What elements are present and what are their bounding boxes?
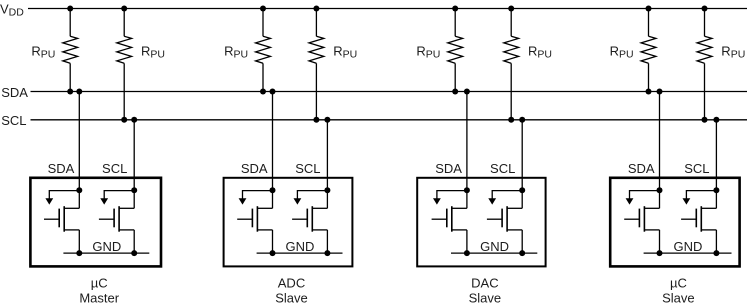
resistor RPU (group 3, VDD to SCL) <box>504 9 519 120</box>
node SCL/RPU junction (group 4) <box>702 117 708 123</box>
node SDA/RPU junction (group 4) <box>646 89 652 95</box>
svg-text:SDA: SDA <box>1 85 28 100</box>
wire SDA bus to device 1 SDA pin <box>78 92 80 209</box>
transistor Q (U4 SDA open-drain) <box>624 206 659 232</box>
node source/GND junction (U3 SDA) <box>464 250 470 256</box>
svg-text:SDA: SDA <box>241 161 268 176</box>
resistor RPU (group 4, VDD to SCL) <box>697 9 712 120</box>
node source/GND junction (U1 SDA) <box>76 250 82 256</box>
transistor Q (U4 SCL open-drain) <box>681 206 716 232</box>
svg-text:µC: µC <box>91 276 108 291</box>
svg-text:Slave: Slave <box>275 291 308 306</box>
wire SDA bus to device 2 SDA pin <box>272 92 274 209</box>
net SCL bus line <box>31 119 747 121</box>
input buffer arrow (U3 SDA) <box>433 191 467 205</box>
wire source to GND rail (U1 SCL) <box>133 230 135 253</box>
svg-text:ADC: ADC <box>278 276 305 291</box>
node SCL branch junction (group 3) <box>519 117 525 123</box>
node drain junction (U3 SCL) <box>519 187 525 193</box>
device box U4: µC Slave <box>610 178 739 267</box>
svg-text:SDA: SDA <box>435 161 462 176</box>
resistor RPU (group 2, VDD to SCL) <box>309 9 324 120</box>
svg-text:RPU: RPU <box>721 43 745 60</box>
input buffer arrow (U4 SCL) <box>683 191 717 205</box>
svg-text:GND: GND <box>92 239 121 254</box>
device box U3: DAC Slave <box>417 178 545 267</box>
node VDD/RPU junction (group 2 SCL) <box>313 6 319 12</box>
node SCL branch junction (group 2) <box>324 117 330 123</box>
node source/GND junction (U2 SCL) <box>324 250 330 256</box>
wire SDA bus to device 4 SDA pin <box>659 92 661 209</box>
svg-text:SCL: SCL <box>102 161 127 176</box>
wire source to GND rail (U4 SCL) <box>715 230 717 253</box>
node SCL/RPU junction (group 3) <box>508 117 514 123</box>
node SCL/RPU junction (group 2) <box>313 117 319 123</box>
input buffer arrow (U2 SDA) <box>239 191 273 205</box>
node SCL branch junction (group 4) <box>713 117 719 123</box>
node drain junction (U3 SDA) <box>464 187 470 193</box>
svg-text:SCL: SCL <box>490 161 515 176</box>
node SDA branch junction (group 3) <box>464 89 470 95</box>
device box U1: µC Master <box>30 178 161 267</box>
wire source to GND rail (U3 SDA) <box>466 230 468 253</box>
svg-text:SDA: SDA <box>48 161 75 176</box>
svg-text:Slave: Slave <box>662 291 695 306</box>
resistor RPU (group 3, VDD to SDA) <box>448 9 463 92</box>
net SDA bus line <box>31 91 747 93</box>
svg-text:VDD: VDD <box>0 1 24 18</box>
node VDD/RPU junction (group 2 SDA) <box>260 6 266 12</box>
resistor RPU (group 2, VDD to SDA) <box>256 9 271 92</box>
wire SCL bus to device 3 SCL pin <box>521 120 523 209</box>
resistor RPU (group 1, VDD to SDA) <box>63 9 78 92</box>
node SDA/RPU junction (group 1) <box>67 89 73 95</box>
input buffer arrow (U2 SCL) <box>294 191 328 205</box>
node drain junction (U2 SDA) <box>270 187 276 193</box>
net VDD bus line <box>28 8 747 10</box>
wire source to GND rail (U1 SDA) <box>78 230 80 253</box>
node VDD/RPU junction (group 4 SDA) <box>646 6 652 12</box>
node VDD/RPU junction (group 1 SDA) <box>67 6 73 12</box>
node source/GND junction (U4 SDA) <box>657 250 663 256</box>
svg-text:RPU: RPU <box>333 43 357 60</box>
svg-text:Slave: Slave <box>469 291 502 306</box>
wire SDA bus to device 3 SDA pin <box>466 92 468 209</box>
svg-text:Master: Master <box>79 291 119 306</box>
svg-text:RPU: RPU <box>416 43 440 60</box>
node VDD/RPU junction (group 3 SDA) <box>452 6 458 12</box>
node SDA branch junction (group 1) <box>76 89 82 95</box>
ground rail GND (U1) <box>63 252 149 254</box>
node drain junction (U4 SDA) <box>657 187 663 193</box>
node drain junction (U1 SDA) <box>76 187 82 193</box>
svg-text:GND: GND <box>285 239 314 254</box>
svg-text:GND: GND <box>480 239 509 254</box>
input buffer arrow (U1 SDA) <box>45 191 79 205</box>
svg-text:SDA: SDA <box>628 161 655 176</box>
device box U2: ADC Slave <box>224 178 353 267</box>
ground rail GND (U4) <box>644 252 732 254</box>
node SDA/RPU junction (group 2) <box>260 89 266 95</box>
svg-text:RPU: RPU <box>528 43 552 60</box>
transistor Q (U1 SCL open-drain) <box>99 206 134 232</box>
node drain junction (U4 SCL) <box>713 187 719 193</box>
transistor Q (U3 SCL open-drain) <box>487 206 522 232</box>
node VDD/RPU junction (group 3 SCL) <box>508 6 514 12</box>
svg-text:DAC: DAC <box>471 276 498 291</box>
wire source to GND rail (U2 SDA) <box>272 230 274 253</box>
wire source to GND rail (U4 SDA) <box>659 230 661 253</box>
ground rail GND (U3) <box>451 252 537 254</box>
node SDA branch junction (group 4) <box>657 89 663 95</box>
wire SCL bus to device 1 SCL pin <box>133 120 135 209</box>
svg-text:SCL: SCL <box>684 161 709 176</box>
svg-text:RPU: RPU <box>224 43 248 60</box>
node source/GND junction (U4 SCL) <box>713 250 719 256</box>
node SCL branch junction (group 1) <box>131 117 137 123</box>
input buffer arrow (U3 SCL) <box>488 191 522 205</box>
node SCL/RPU junction (group 1) <box>121 117 127 123</box>
input buffer arrow (U4 SDA) <box>626 191 660 205</box>
svg-text:RPU: RPU <box>141 43 165 60</box>
svg-text:SCL: SCL <box>295 161 320 176</box>
node source/GND junction (U1 SCL) <box>131 250 137 256</box>
transistor Q (U1 SDA open-drain) <box>44 206 79 232</box>
svg-text:GND: GND <box>674 239 703 254</box>
transistor Q (U2 SDA open-drain) <box>237 206 272 232</box>
svg-text:RPU: RPU <box>610 43 634 60</box>
svg-text:µC: µC <box>670 276 687 291</box>
resistor RPU (group 4, VDD to SDA) <box>641 9 656 92</box>
node SDA branch junction (group 2) <box>270 89 276 95</box>
node VDD/RPU junction (group 1 SCL) <box>121 6 127 12</box>
node SDA/RPU junction (group 3) <box>452 89 458 95</box>
node drain junction (U1 SCL) <box>131 187 137 193</box>
svg-text:RPU: RPU <box>31 43 55 60</box>
node drain junction (U2 SCL) <box>324 187 330 193</box>
wire SCL bus to device 4 SCL pin <box>715 120 717 209</box>
wire source to GND rail (U2 SCL) <box>326 230 328 253</box>
node source/GND junction (U3 SCL) <box>519 250 525 256</box>
node source/GND junction (U2 SDA) <box>270 250 276 256</box>
transistor Q (U3 SDA open-drain) <box>432 206 467 232</box>
input buffer arrow (U1 SCL) <box>100 191 134 205</box>
svg-text:SCL: SCL <box>1 113 26 128</box>
ground rail GND (U2) <box>257 252 343 254</box>
node VDD/RPU junction (group 4 SCL) <box>702 6 708 12</box>
wire source to GND rail (U3 SCL) <box>521 230 523 253</box>
resistor RPU (group 1, VDD to SCL) <box>117 9 132 120</box>
wire SCL bus to device 2 SCL pin <box>326 120 328 209</box>
transistor Q (U2 SCL open-drain) <box>292 206 327 232</box>
